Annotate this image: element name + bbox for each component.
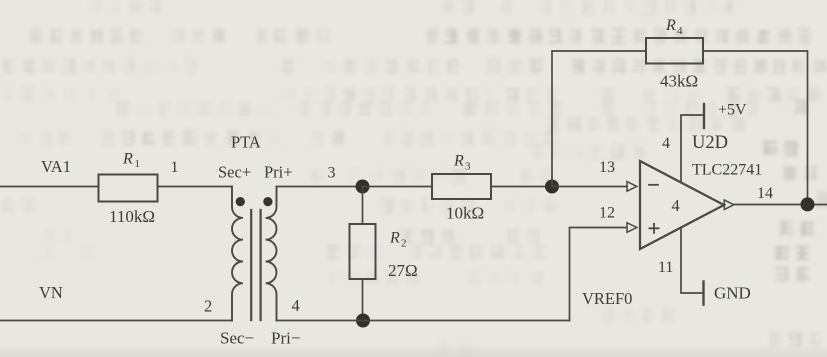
svg-text:10kΩ: 10kΩ — [446, 204, 484, 223]
label R2 — [389, 230, 407, 250]
wire riser to op-amp pin 12 — [570, 228, 628, 321]
+5V power bar — [703, 104, 705, 128]
svg-text:1: 1 — [135, 158, 141, 170]
resistor R1 — [99, 175, 158, 202]
svg-text:VN: VN — [39, 283, 63, 302]
node D output junction — [801, 197, 815, 211]
node A junction — [356, 180, 370, 194]
wire op-amp output — [734, 204, 827, 206]
wire R1 to transformer Sec+ — [158, 186, 233, 188]
svg-text:2: 2 — [204, 297, 212, 316]
wire R2 top lead — [362, 187, 364, 225]
wire op-amp power pin 4 — [681, 115, 704, 183]
svg-text:R: R — [389, 230, 400, 247]
resistor R2 — [350, 224, 376, 279]
svg-text:27Ω: 27Ω — [388, 261, 418, 280]
phase dot right — [263, 197, 272, 206]
wire node B to op-amp pin 13 — [552, 186, 627, 188]
svg-text:R: R — [453, 153, 464, 170]
node B junction — [545, 180, 559, 194]
wire feedback riser and R4 left lead — [552, 51, 646, 187]
svg-text:TLC22741: TLC22741 — [692, 162, 762, 179]
svg-text:GND: GND — [714, 284, 751, 303]
op-amp U2D input marker pin 13 — [627, 182, 637, 192]
svg-text:13: 13 — [599, 159, 615, 176]
svg-text:11: 11 — [658, 259, 673, 276]
svg-text:43kΩ: 43kΩ — [660, 72, 698, 91]
svg-text:Sec+: Sec+ — [218, 163, 251, 182]
svg-text:U2D: U2D — [692, 133, 728, 153]
svg-text:12: 12 — [599, 205, 615, 222]
wire R2 bottom lead — [362, 279, 364, 321]
svg-text:Sec−: Sec− — [220, 329, 254, 348]
svg-text:PTA: PTA — [231, 133, 261, 152]
transformer PTA right winding (primary) — [266, 187, 277, 321]
svg-text:14: 14 — [757, 185, 773, 202]
label R4 — [665, 17, 683, 37]
op-amp output marker — [724, 200, 734, 210]
svg-text:VREF0: VREF0 — [582, 289, 632, 308]
svg-text:Pri−: Pri− — [271, 329, 300, 348]
phase dot left — [236, 197, 245, 206]
svg-text:4: 4 — [677, 25, 683, 37]
svg-text:2: 2 — [401, 238, 407, 250]
svg-text:+5V: +5V — [718, 102, 747, 119]
op-amp U2D triangle — [640, 161, 724, 249]
svg-text:3: 3 — [465, 161, 471, 173]
svg-text:R: R — [122, 151, 133, 168]
svg-text:Pri+: Pri+ — [264, 163, 293, 182]
svg-text:R: R — [665, 17, 676, 34]
wire Pri+ to node A — [277, 186, 363, 188]
GND bar — [702, 282, 704, 305]
svg-text:4: 4 — [672, 196, 680, 215]
op-amp U2D input marker pin 12 — [627, 223, 637, 233]
wire R3 to node B — [491, 186, 552, 188]
svg-text:4: 4 — [292, 296, 300, 315]
wire VN input to Sec- — [0, 320, 232, 322]
label R3 — [453, 153, 471, 173]
minus sign inverting input — [649, 184, 658, 186]
svg-text:110kΩ: 110kΩ — [109, 207, 155, 226]
svg-text:1: 1 — [171, 159, 179, 176]
resistor R4 — [646, 38, 703, 64]
wire Pri- to node C to riser — [277, 320, 570, 322]
wire op-amp ground pin 11 — [681, 228, 704, 294]
node C junction — [356, 314, 370, 328]
resistor R3 — [432, 174, 491, 199]
plus sign non-inverting input — [650, 224, 659, 233]
svg-text:4: 4 — [662, 135, 670, 152]
svg-text:VA1: VA1 — [41, 157, 71, 176]
label R1 — [122, 151, 140, 171]
transformer core lines — [251, 210, 260, 320]
transformer PTA left winding (secondary) — [232, 187, 243, 321]
wire VA1 input — [0, 186, 99, 188]
wire node A to R3 — [363, 186, 433, 188]
wire R4 right lead down to output node — [703, 51, 808, 204]
svg-text:3: 3 — [328, 165, 336, 182]
